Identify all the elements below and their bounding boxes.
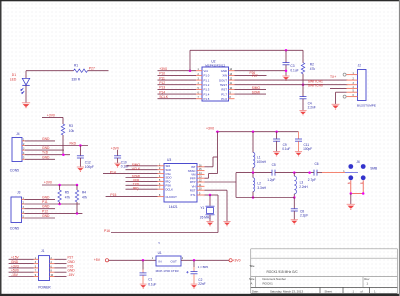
svg-text:J1: J1 (41, 249, 45, 253)
svg-text:100nH: 100nH (257, 160, 267, 164)
svg-text:U3: U3 (167, 158, 171, 162)
svg-text:U1: U1 (158, 251, 162, 255)
svg-text:TX+: TX+ (330, 75, 336, 79)
svg-text:XIN: XIN (222, 74, 227, 78)
svg-text:XTL: XTL (190, 193, 196, 197)
svg-text:POWER: POWER (38, 285, 51, 289)
svg-text:VCLK: VCLK (132, 167, 141, 171)
svg-text:RST: RST (221, 88, 227, 92)
svg-text:BU2STUMPE: BU2STUMPE (357, 103, 376, 107)
svg-text:L1: L1 (257, 155, 261, 159)
svg-text:100pF: 100pF (85, 165, 94, 169)
svg-text:+3V0: +3V0 (159, 67, 167, 71)
svg-text:LED: LED (10, 78, 17, 82)
svg-text:GND: GND (42, 195, 50, 199)
svg-text:CON5: CON5 (10, 226, 19, 230)
svg-text:C3: C3 (290, 64, 294, 68)
svg-text:0.1uF: 0.1uF (121, 164, 129, 168)
svg-text:C1: C1 (148, 278, 152, 282)
svg-text:CON5: CON5 (10, 169, 19, 173)
svg-text:R4: R4 (82, 191, 86, 195)
svg-text:Vcc: Vcc (204, 69, 209, 73)
svg-text:P27: P27 (89, 66, 95, 70)
svg-text:0.1uF: 0.1uF (148, 282, 156, 286)
svg-text:J6: J6 (356, 160, 360, 164)
svg-text:+3V0: +3V0 (111, 146, 119, 150)
svg-text:P11: P11 (42, 200, 48, 204)
svg-text:1.2pF: 1.2pF (267, 178, 275, 182)
svg-text:GND: GND (42, 146, 50, 150)
svg-text:ROCK1: ROCK1 (263, 281, 274, 285)
svg-text:DCLK: DCLK (166, 187, 174, 191)
svg-text:P10: P10 (159, 72, 165, 76)
svg-text:Sheet: Sheet (325, 289, 333, 293)
svg-text:P1.3: P1.3 (204, 88, 210, 92)
svg-text:P11: P11 (159, 76, 165, 80)
svg-text:R1: R1 (74, 64, 78, 68)
svg-text:P1.0: P1.0 (204, 74, 210, 78)
svg-text:GND: GND (42, 205, 50, 209)
svg-text:DOUT: DOUT (219, 78, 227, 82)
svg-text:Date:: Date: (252, 289, 259, 293)
svg-text:CLKOUT: CLKOUT (166, 195, 178, 199)
svg-text:2.7pF: 2.7pF (308, 178, 316, 182)
svg-text:D1: D1 (12, 73, 16, 77)
svg-text:IRQ: IRQ (133, 186, 139, 190)
svg-text:0.1uF: 0.1uF (290, 69, 298, 73)
svg-text:J2: J2 (358, 64, 362, 68)
svg-text:P1.5: P1.5 (204, 97, 210, 101)
svg-text:TEST: TEST (220, 83, 227, 87)
svg-text:GND: GND (42, 137, 50, 141)
svg-text:R3: R3 (69, 124, 73, 128)
svg-text:A: A (250, 282, 252, 286)
svg-text:P13: P13 (159, 86, 165, 90)
svg-text:MCP-1700 CTD3: MCP-1700 CTD3 (156, 269, 179, 273)
svg-text:14421: 14421 (169, 205, 178, 209)
svg-text:R5: R5 (65, 191, 69, 195)
svg-text:+3V0: +3V0 (232, 259, 240, 263)
svg-text:0.1uF: 0.1uF (282, 147, 290, 151)
svg-text:22nF: 22nF (198, 282, 205, 286)
svg-text:OUT: OUT (171, 259, 178, 263)
svg-text:Title: Title (249, 264, 255, 268)
svg-text:GND: GND (42, 214, 50, 218)
svg-text:P12: P12 (159, 81, 165, 85)
svg-text:-15V: -15V (68, 273, 76, 277)
svg-text:RxD: RxD (70, 142, 77, 146)
svg-text:1 = B05: 1 = B05 (198, 265, 209, 269)
svg-text:L3: L3 (300, 180, 304, 184)
svg-text:of: of (361, 289, 364, 293)
svg-text:P14: P14 (159, 90, 165, 94)
svg-text:P27: P27 (252, 74, 258, 78)
svg-text:GND: GND (42, 155, 50, 159)
svg-text:SWITCH0: SWITCH0 (308, 84, 323, 88)
svg-text:P1.7: P1.7 (221, 92, 227, 96)
svg-text:SOMI: SOMI (252, 91, 260, 95)
svg-text:ROCK1 915 MHz G/C: ROCK1 915 MHz G/C (267, 270, 299, 274)
svg-text:47k: 47k (310, 67, 316, 71)
svg-text:100pF: 100pF (303, 147, 312, 151)
svg-text:J3: J3 (17, 190, 21, 194)
svg-text:+5V: +5V (94, 258, 101, 262)
svg-text:2.2nF: 2.2nF (308, 106, 316, 110)
svg-text:R2: R2 (310, 62, 314, 66)
svg-text:C6: C6 (315, 162, 319, 166)
svg-text:P16: P16 (104, 229, 110, 233)
svg-text:L2: L2 (257, 181, 261, 185)
svg-text:GND: GND (221, 69, 227, 73)
svg-text:P1.6: P1.6 (221, 97, 227, 101)
svg-text:SCLK: SCLK (159, 95, 169, 99)
svg-text:P12: P12 (42, 209, 48, 213)
svg-text:2.2pF: 2.2pF (300, 214, 308, 218)
svg-text:SMB: SMB (370, 166, 377, 170)
svg-text:SIMO: SIMO (252, 86, 261, 90)
svg-text:26 MHz: 26 MHz (200, 216, 211, 220)
svg-text:P14: P14 (110, 170, 116, 174)
svg-text:IN: IN (159, 259, 162, 263)
svg-text:Size: Size (249, 277, 255, 281)
svg-text:P15: P15 (110, 193, 116, 197)
svg-text:P1.2: P1.2 (204, 83, 210, 87)
svg-text:47k: 47k (65, 195, 71, 199)
svg-text:C5: C5 (272, 163, 276, 167)
svg-text:J4: J4 (16, 132, 20, 136)
svg-text:2.2nH: 2.2nH (299, 185, 308, 189)
svg-text:TxD: TxD (42, 151, 49, 155)
svg-text:330 R: 330 R (72, 77, 81, 81)
svg-text:P1.4: P1.4 (204, 92, 210, 96)
svg-text:P1.1: P1.1 (204, 78, 210, 82)
svg-text:Y1: Y1 (200, 206, 204, 210)
svg-text:+3V0: +3V0 (206, 127, 214, 131)
svg-text:10k: 10k (69, 129, 75, 133)
svg-text:Rev: Rev (364, 277, 370, 281)
svg-text:-15V: -15V (11, 273, 19, 277)
svg-text:RST: RST (190, 188, 196, 192)
svg-text:3.3nH: 3.3nH (257, 186, 266, 190)
svg-text:+3V0: +3V0 (44, 181, 52, 185)
svg-text:Saturday, March 23, 2013: Saturday, March 23, 2013 (270, 289, 303, 293)
svg-text:47k: 47k (82, 195, 88, 199)
